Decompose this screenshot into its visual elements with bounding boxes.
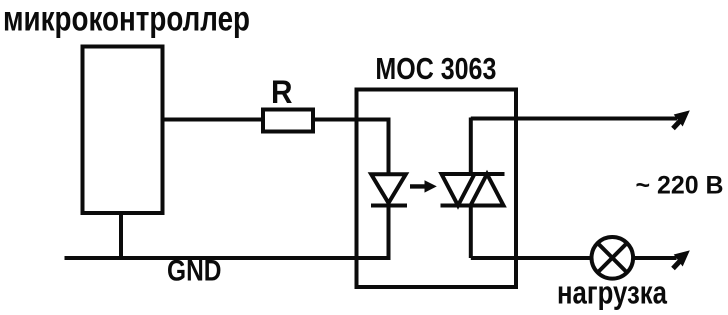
terminal arrow bottom bbox=[673, 252, 689, 269]
resistor R bbox=[263, 110, 313, 132]
wire bottom output to lamp bbox=[471, 256, 592, 260]
terminal arrow top bbox=[673, 112, 689, 129]
microcontroller box bbox=[83, 47, 163, 214]
svg-text:нагрузка: нагрузка bbox=[557, 275, 667, 311]
op-amp U1 MOC 3063 box bbox=[357, 90, 517, 288]
wire micro to resistor bbox=[163, 118, 264, 122]
wire micro bottom stub bbox=[119, 213, 123, 258]
diode D1 LED triangle bbox=[371, 174, 406, 203]
lamp X stroke 1 bbox=[598, 243, 627, 272]
triac top bar bbox=[441, 172, 505, 176]
triac down triangle bbox=[442, 174, 475, 206]
wire lamp to terminal bbox=[633, 256, 676, 260]
svg-text:микроконтроллер: микроконтроллер bbox=[3, 0, 250, 39]
triac up triangle bbox=[471, 174, 504, 206]
svg-text:MOC 3063: MOC 3063 bbox=[375, 51, 496, 86]
arrow LED to triac bbox=[410, 180, 437, 192]
svg-text:~ 220 В: ~ 220 В bbox=[636, 171, 724, 199]
svg-text:R: R bbox=[271, 74, 293, 110]
lamp X stroke 2 bbox=[598, 243, 627, 272]
lamp load circle bbox=[592, 237, 634, 279]
diode D1 cathode bar bbox=[371, 204, 407, 208]
wire GND rail bbox=[65, 256, 391, 260]
svg-text:GND: GND bbox=[167, 255, 222, 288]
wire top output bbox=[471, 117, 677, 121]
wire triac branch vertical bbox=[469, 118, 473, 175]
triac bottom bar bbox=[441, 204, 505, 208]
wire LED branch vertical bbox=[387, 118, 391, 177]
wire resistor to LED branch bbox=[313, 118, 389, 122]
